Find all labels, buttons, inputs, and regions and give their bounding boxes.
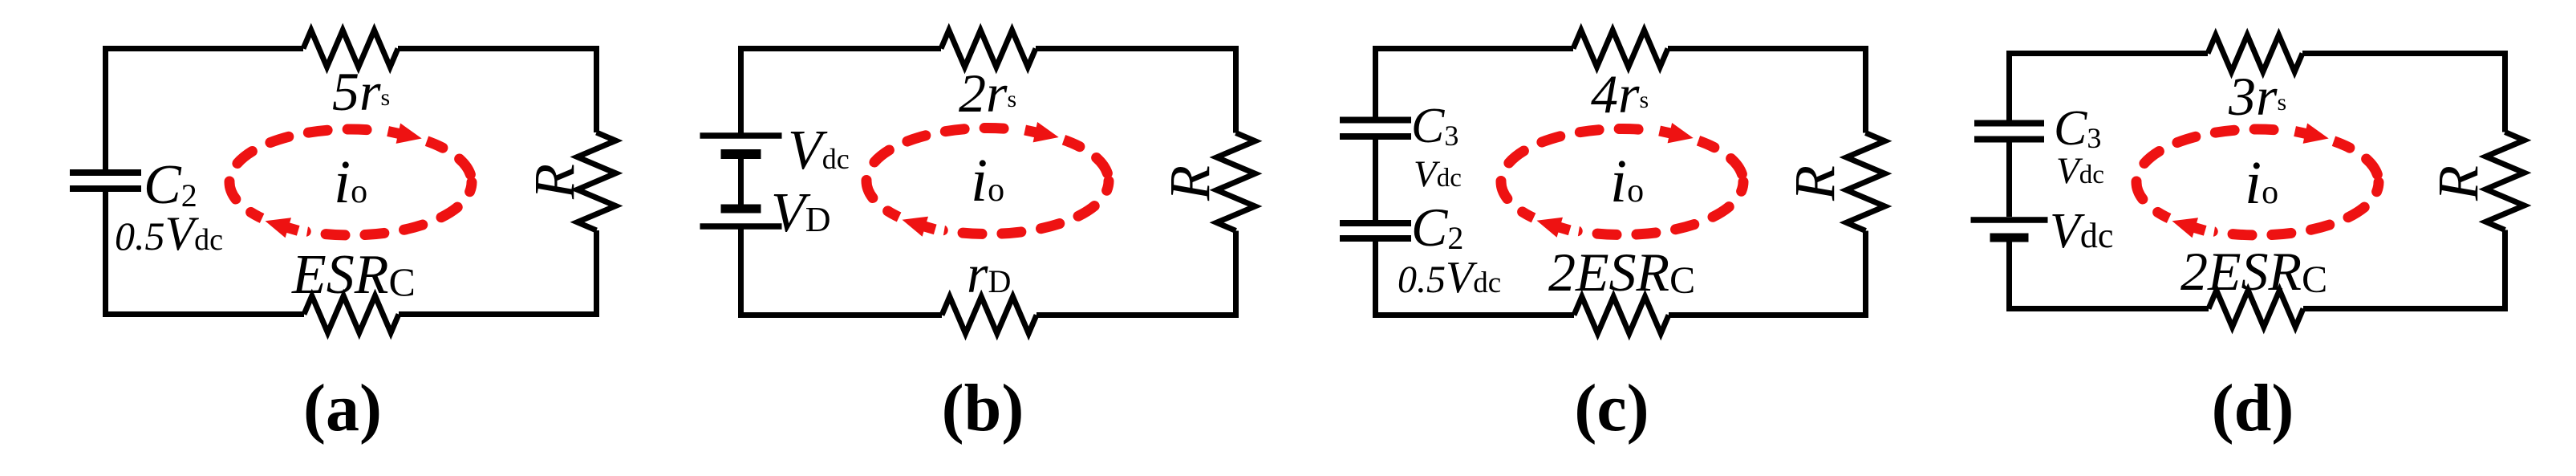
svg-text:R: R — [1783, 165, 1847, 201]
svg-text:(c): (c) — [1574, 371, 1649, 445]
svg-text:R: R — [522, 164, 586, 200]
svg-text:(d): (d) — [2212, 371, 2294, 445]
svg-text:R: R — [1158, 165, 1222, 201]
svg-text:(a): (a) — [303, 371, 382, 445]
svg-text:R: R — [2426, 165, 2490, 201]
svg-text:(b): (b) — [942, 371, 1024, 445]
